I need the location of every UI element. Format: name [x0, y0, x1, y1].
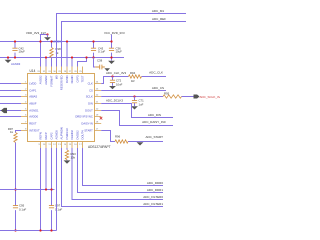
svg-text:REFP: REFP — [44, 132, 48, 139]
svg-text:DAISY-IN: DAISY-IN — [81, 122, 92, 126]
U14 bottom pin names — [39, 127, 85, 139]
node hierarchical arrow SCLK — [194, 95, 200, 99]
svg-text:START: START — [84, 129, 93, 133]
capacitor C38 — [95, 65, 105, 70]
svg-text:VCC_DVD_3V3: VCC_DVD_3V3 — [104, 31, 125, 35]
wire net ADC_CS — [101, 90, 166, 92]
label ADC_DIN — [148, 113, 161, 117]
svg-text:FORMAT: FORMAT — [50, 75, 54, 87]
label VCC_DVD_3V3 — [104, 31, 125, 35]
svg-text:10uF: 10uF — [19, 49, 26, 53]
svg-text:DOUT: DOUT — [85, 109, 93, 113]
svg-text:C38: C38 — [97, 59, 103, 63]
svg-text:AVDD2: AVDD2 — [39, 75, 43, 84]
U14 right pin names — [75, 82, 93, 133]
wire C43 to C38 — [94, 58, 96, 68]
svg-text:1R: 1R — [131, 79, 135, 83]
wire AGND3 lower stem — [7, 58, 9, 60]
svg-text:LVDD: LVDD — [29, 82, 36, 86]
svg-text:DRDY/FSYNC: DRDY/FSYNC — [75, 115, 93, 119]
svg-text:29: 29 — [58, 71, 61, 73]
svg-text:15: 15 — [69, 144, 72, 146]
wire C42 leads — [14, 42, 16, 58]
U14 bottom pin numbers 9-17 — [38, 144, 82, 146]
svg-text:16: 16 — [74, 144, 77, 146]
label ADC_DCLK3 — [106, 99, 123, 103]
node junction AVDD2-rail — [39, 40, 41, 42]
label R96 — [115, 135, 121, 139]
svg-text:R94: R94 — [130, 71, 136, 75]
ground C36 — [108, 61, 115, 64]
node junction CLK cap tap — [111, 75, 113, 77]
U14 left pin numbers 1-8 — [25, 82, 27, 131]
label ADC_FILTER0 — [143, 195, 163, 199]
wire bottom gnd rail2 — [0, 230, 57, 232]
svg-text:ADC_DCLK3: ADC_DCLK3 — [106, 99, 123, 103]
capacitor C36 — [109, 48, 114, 50]
capacitor C95 — [13, 206, 18, 208]
label ADC_CLK_3V3 — [106, 71, 126, 75]
label C36 — [116, 47, 123, 54]
capacitor C71 — [132, 101, 137, 103]
node junction C97-rail2 — [50, 229, 52, 231]
wire net ADC_FILTER0 from col7 — [72, 148, 163, 200]
label C71 — [139, 99, 145, 107]
wire C72 leads — [112, 77, 114, 86]
node junction R18-vdd — [50, 40, 52, 42]
svg-text:REXT: REXT — [29, 122, 37, 126]
wire pin26 CAP3 jog — [78, 58, 87, 67]
U14 top pin numbers 33-25 — [37, 71, 82, 73]
svg-text:SCLK: SCLK — [86, 95, 93, 99]
svg-text:ABUF: ABUF — [29, 102, 37, 106]
svg-text:32: 32 — [43, 71, 46, 73]
wire net ADC_START — [101, 131, 163, 142]
node junction C42-gnd — [14, 56, 16, 58]
svg-text:DVDD2: DVDD2 — [76, 130, 80, 140]
svg-text:M0: M0 — [55, 75, 59, 79]
svg-text:ADC_DDR0: ADC_DDR0 — [147, 181, 164, 185]
wire pin32 AVDD2 to label node — [41, 35, 48, 67]
ground R93 — [64, 160, 71, 163]
svg-text:12: 12 — [53, 144, 56, 146]
wire left pin nets to sheet edge — [0, 84, 21, 117]
svg-text:CS: CS — [89, 89, 93, 93]
node junction C43-vdd — [92, 40, 94, 42]
wire C43 leads — [93, 42, 95, 58]
U14 left pin stubs 1-8 — [21, 84, 28, 131]
label ADC_CS — [152, 86, 164, 90]
ground C72 — [109, 86, 116, 89]
node junction DGND-rail — [71, 56, 73, 58]
svg-text:27: 27 — [69, 71, 72, 73]
wire net ADC_FILTER1 from col5 — [62, 148, 164, 207]
svg-text:AGND2: AGND2 — [44, 75, 48, 85]
svg-text:CAP1: CAP1 — [29, 89, 37, 93]
wire net ADC_DDR0 from col9 — [83, 148, 164, 186]
svg-text:AGND3: AGND3 — [11, 62, 21, 66]
svg-text:14: 14 — [64, 144, 67, 146]
label ADC_START — [145, 135, 163, 139]
node junction SCLK cap tap — [133, 95, 135, 97]
node junction REFN-rail2 — [39, 229, 41, 231]
label C72 — [116, 78, 123, 86]
svg-text:ADC_M1: ADC_M1 — [152, 9, 165, 13]
resistor R94 — [129, 75, 142, 78]
node junction C42-vdd — [14, 40, 16, 42]
label VDD_3V3_FLT — [26, 31, 46, 35]
svg-text:13: 13 — [58, 144, 61, 146]
wire net ADC_M1 — [57, 14, 187, 67]
label C42 — [19, 47, 26, 54]
svg-text:25: 25 — [79, 71, 82, 73]
svg-text:ADS1274IPAPT: ADS1274IPAPT — [88, 145, 111, 149]
wire R93 leads — [66, 148, 68, 160]
svg-text:AGND5: AGND5 — [55, 130, 59, 140]
svg-text:ADC_SCLK_3V3_INT: ADC_SCLK_3V3_INT — [200, 95, 221, 99]
svg-text:ADC_CLK: ADC_CLK — [149, 70, 163, 74]
wire net ADC_SCLK — [101, 96, 193, 98]
svg-text:CAP2: CAP2 — [50, 132, 54, 140]
node junction C36-gnd — [110, 56, 112, 58]
svg-text:28: 28 — [64, 71, 67, 73]
node junction C97-rail1 — [50, 188, 52, 190]
label C97 — [55, 204, 62, 212]
svg-text:R96: R96 — [115, 135, 121, 139]
wire net ADC_REF — [62, 22, 187, 67]
svg-text:ADC_START: ADC_START — [145, 135, 163, 139]
svg-text:11: 11 — [48, 144, 51, 146]
svg-text:0.1uF: 0.1uF — [98, 49, 105, 53]
svg-text:DIN: DIN — [88, 102, 93, 106]
wire R18 leads — [51, 42, 53, 67]
label R18 — [56, 47, 62, 55]
wire bottom gnd rail1 — [0, 189, 55, 191]
wire col REFP down to rail1 — [45, 148, 47, 190]
svg-text:R95: R95 — [164, 91, 170, 95]
label C43 — [98, 47, 105, 54]
svg-text:26: 26 — [74, 71, 77, 73]
resistor R97 — [14, 133, 17, 143]
svg-text:33: 33 — [37, 71, 40, 73]
svg-text:DGND: DGND — [70, 75, 74, 83]
label AGND3 lower — [11, 62, 21, 66]
ground C38 — [104, 68, 110, 71]
node junction AGND3 lower — [7, 56, 9, 58]
label ADC_DDR1 — [147, 188, 164, 192]
wire pin27 DVDD to vdd rail — [66, 42, 68, 67]
node junction AGND3 tap — [46, 33, 48, 35]
svg-text:ADC_DIN: ADC_DIN — [148, 113, 161, 117]
svg-text:TEST: TEST — [81, 75, 85, 82]
node junction C43-gnd — [92, 56, 94, 58]
svg-text:DOUT4: DOUT4 — [81, 130, 85, 140]
wire C71 leads — [134, 97, 136, 107]
node ERC marker DRDY — [100, 117, 103, 120]
wire net ADC_DDR1 from col8 — [78, 148, 164, 193]
label ADC_REF — [152, 17, 166, 21]
label ADC_SCLK_3V3 red — [200, 95, 230, 99]
svg-text:ADC_DAISY_IN0: ADC_DAISY_IN0 — [142, 120, 166, 124]
svg-text:FSM/CLK: FSM/CLK — [65, 128, 69, 140]
label R95 — [164, 91, 170, 95]
U14 right pin stubs 24-17 — [95, 84, 102, 131]
U14 top pin names — [39, 75, 85, 90]
resistor R96 — [115, 140, 128, 143]
capacitor C72 — [110, 80, 115, 82]
U14 reference designator — [30, 69, 36, 73]
node junction DVDD-rail — [66, 40, 68, 42]
svg-text:ADC_FILTER1: ADC_FILTER1 — [143, 202, 163, 206]
label ADC_DOUT — [142, 120, 166, 124]
U14 left pin names — [29, 82, 40, 133]
label ADC_FILTER1 — [143, 202, 163, 206]
svg-text:10k: 10k — [71, 156, 76, 160]
capacitor C97 — [49, 206, 54, 208]
node junction CAP3-rail — [85, 56, 87, 58]
node junction AGND2-rail — [45, 56, 47, 58]
node junction R97-rail1 — [14, 188, 16, 190]
svg-text:DGND2: DGND2 — [70, 130, 74, 140]
svg-text:ADC_FILTER0: ADC_FILTER0 — [143, 195, 163, 199]
svg-text:10uF: 10uF — [116, 49, 123, 53]
label R94 — [130, 71, 136, 83]
node junction REFP-rail1 — [45, 188, 47, 190]
svg-text:U14: U14 — [30, 69, 36, 73]
label R93 — [71, 152, 77, 160]
label C95 — [19, 204, 26, 212]
svg-text:31: 31 — [48, 71, 51, 73]
U14 part number — [88, 145, 111, 149]
svg-text:0.1uF: 0.1uF — [19, 208, 26, 212]
label C38 — [97, 59, 103, 63]
svg-text:DVDD: DVDD — [65, 75, 69, 83]
ground C71 — [131, 106, 138, 109]
wire START gnd stem — [139, 141, 141, 144]
svg-text:ADC_CS: ADC_CS — [152, 86, 164, 90]
ground AGND3 lower — [5, 60, 12, 63]
wire AGND3 stem — [47, 35, 49, 38]
wire net ADC_DIN — [101, 104, 173, 118]
svg-text:AGND1: AGND1 — [29, 109, 39, 113]
svg-text:1k: 1k — [10, 130, 14, 134]
node sheet-entry arrow AIN — [1, 108, 7, 113]
svg-text:REFN: REFN — [39, 132, 43, 139]
node junction C36-vdd — [110, 40, 112, 42]
ground START — [137, 142, 144, 145]
U14 right pin numbers 24-17 — [96, 82, 99, 131]
capacitor C43 — [91, 48, 96, 50]
svg-text:17: 17 — [79, 144, 82, 146]
wire C36 leads — [111, 35, 113, 61]
resistor R95 — [163, 95, 182, 98]
svg-text:10: 10 — [43, 144, 46, 146]
wire pin26 DGND to gnd rail — [71, 58, 73, 67]
svg-text:AVDD0: AVDD0 — [29, 115, 38, 119]
wire net ADC_CLK — [101, 77, 166, 84]
node junction C95-rail2 — [14, 229, 16, 231]
svg-text:CLK: CLK — [88, 82, 93, 86]
svg-text:INT/EXT: INT/EXT — [29, 129, 40, 133]
U14 bottom pin stubs 9-16 — [41, 142, 83, 149]
U14 top pin stubs 32-25 — [41, 67, 83, 74]
label ADC_M1 — [152, 9, 165, 13]
label R97 — [8, 127, 14, 134]
svg-text:ADC_REF: ADC_REF — [152, 17, 166, 21]
label ADC_CLK — [149, 70, 163, 74]
ground AGND3 upper — [44, 37, 51, 40]
svg-text:ADC_CLK_3V3: ADC_CLK_3V3 — [106, 71, 126, 75]
wire col AGND5 down to rail2 end — [56, 148, 58, 231]
svg-text:1uF: 1uF — [139, 103, 144, 107]
svg-text:10nF: 10nF — [116, 82, 123, 86]
resistor R93 — [65, 150, 68, 160]
IC U14 (ADC) body — [28, 74, 95, 142]
wire R97 net — [16, 131, 22, 231]
wire AGND rail — [0, 57, 124, 59]
svg-text:ABIAS: ABIAS — [29, 95, 37, 99]
wire col CAP2 through C97 — [51, 148, 53, 231]
resistor R18 — [50, 48, 53, 58]
svg-text:CAP3: CAP3 — [76, 75, 80, 83]
capacitor C42 — [12, 48, 17, 50]
svg-text:ADC_DDR1: ADC_DDR1 — [147, 188, 164, 192]
label AGND3 upper — [52, 40, 62, 44]
svg-text:RESERVED: RESERVED — [60, 75, 64, 90]
svg-text:30: 30 — [53, 71, 56, 73]
wire net ADC_DOUT — [101, 111, 173, 126]
svg-text:AL/PWDN: AL/PWDN — [60, 127, 64, 139]
wire col REFN down to rail2 — [40, 148, 42, 231]
label ADC_DDR0 — [147, 181, 164, 185]
wire VDD 3V3 rail — [0, 41, 112, 43]
wire pin31 AGND2 to gnd rail — [45, 58, 47, 67]
